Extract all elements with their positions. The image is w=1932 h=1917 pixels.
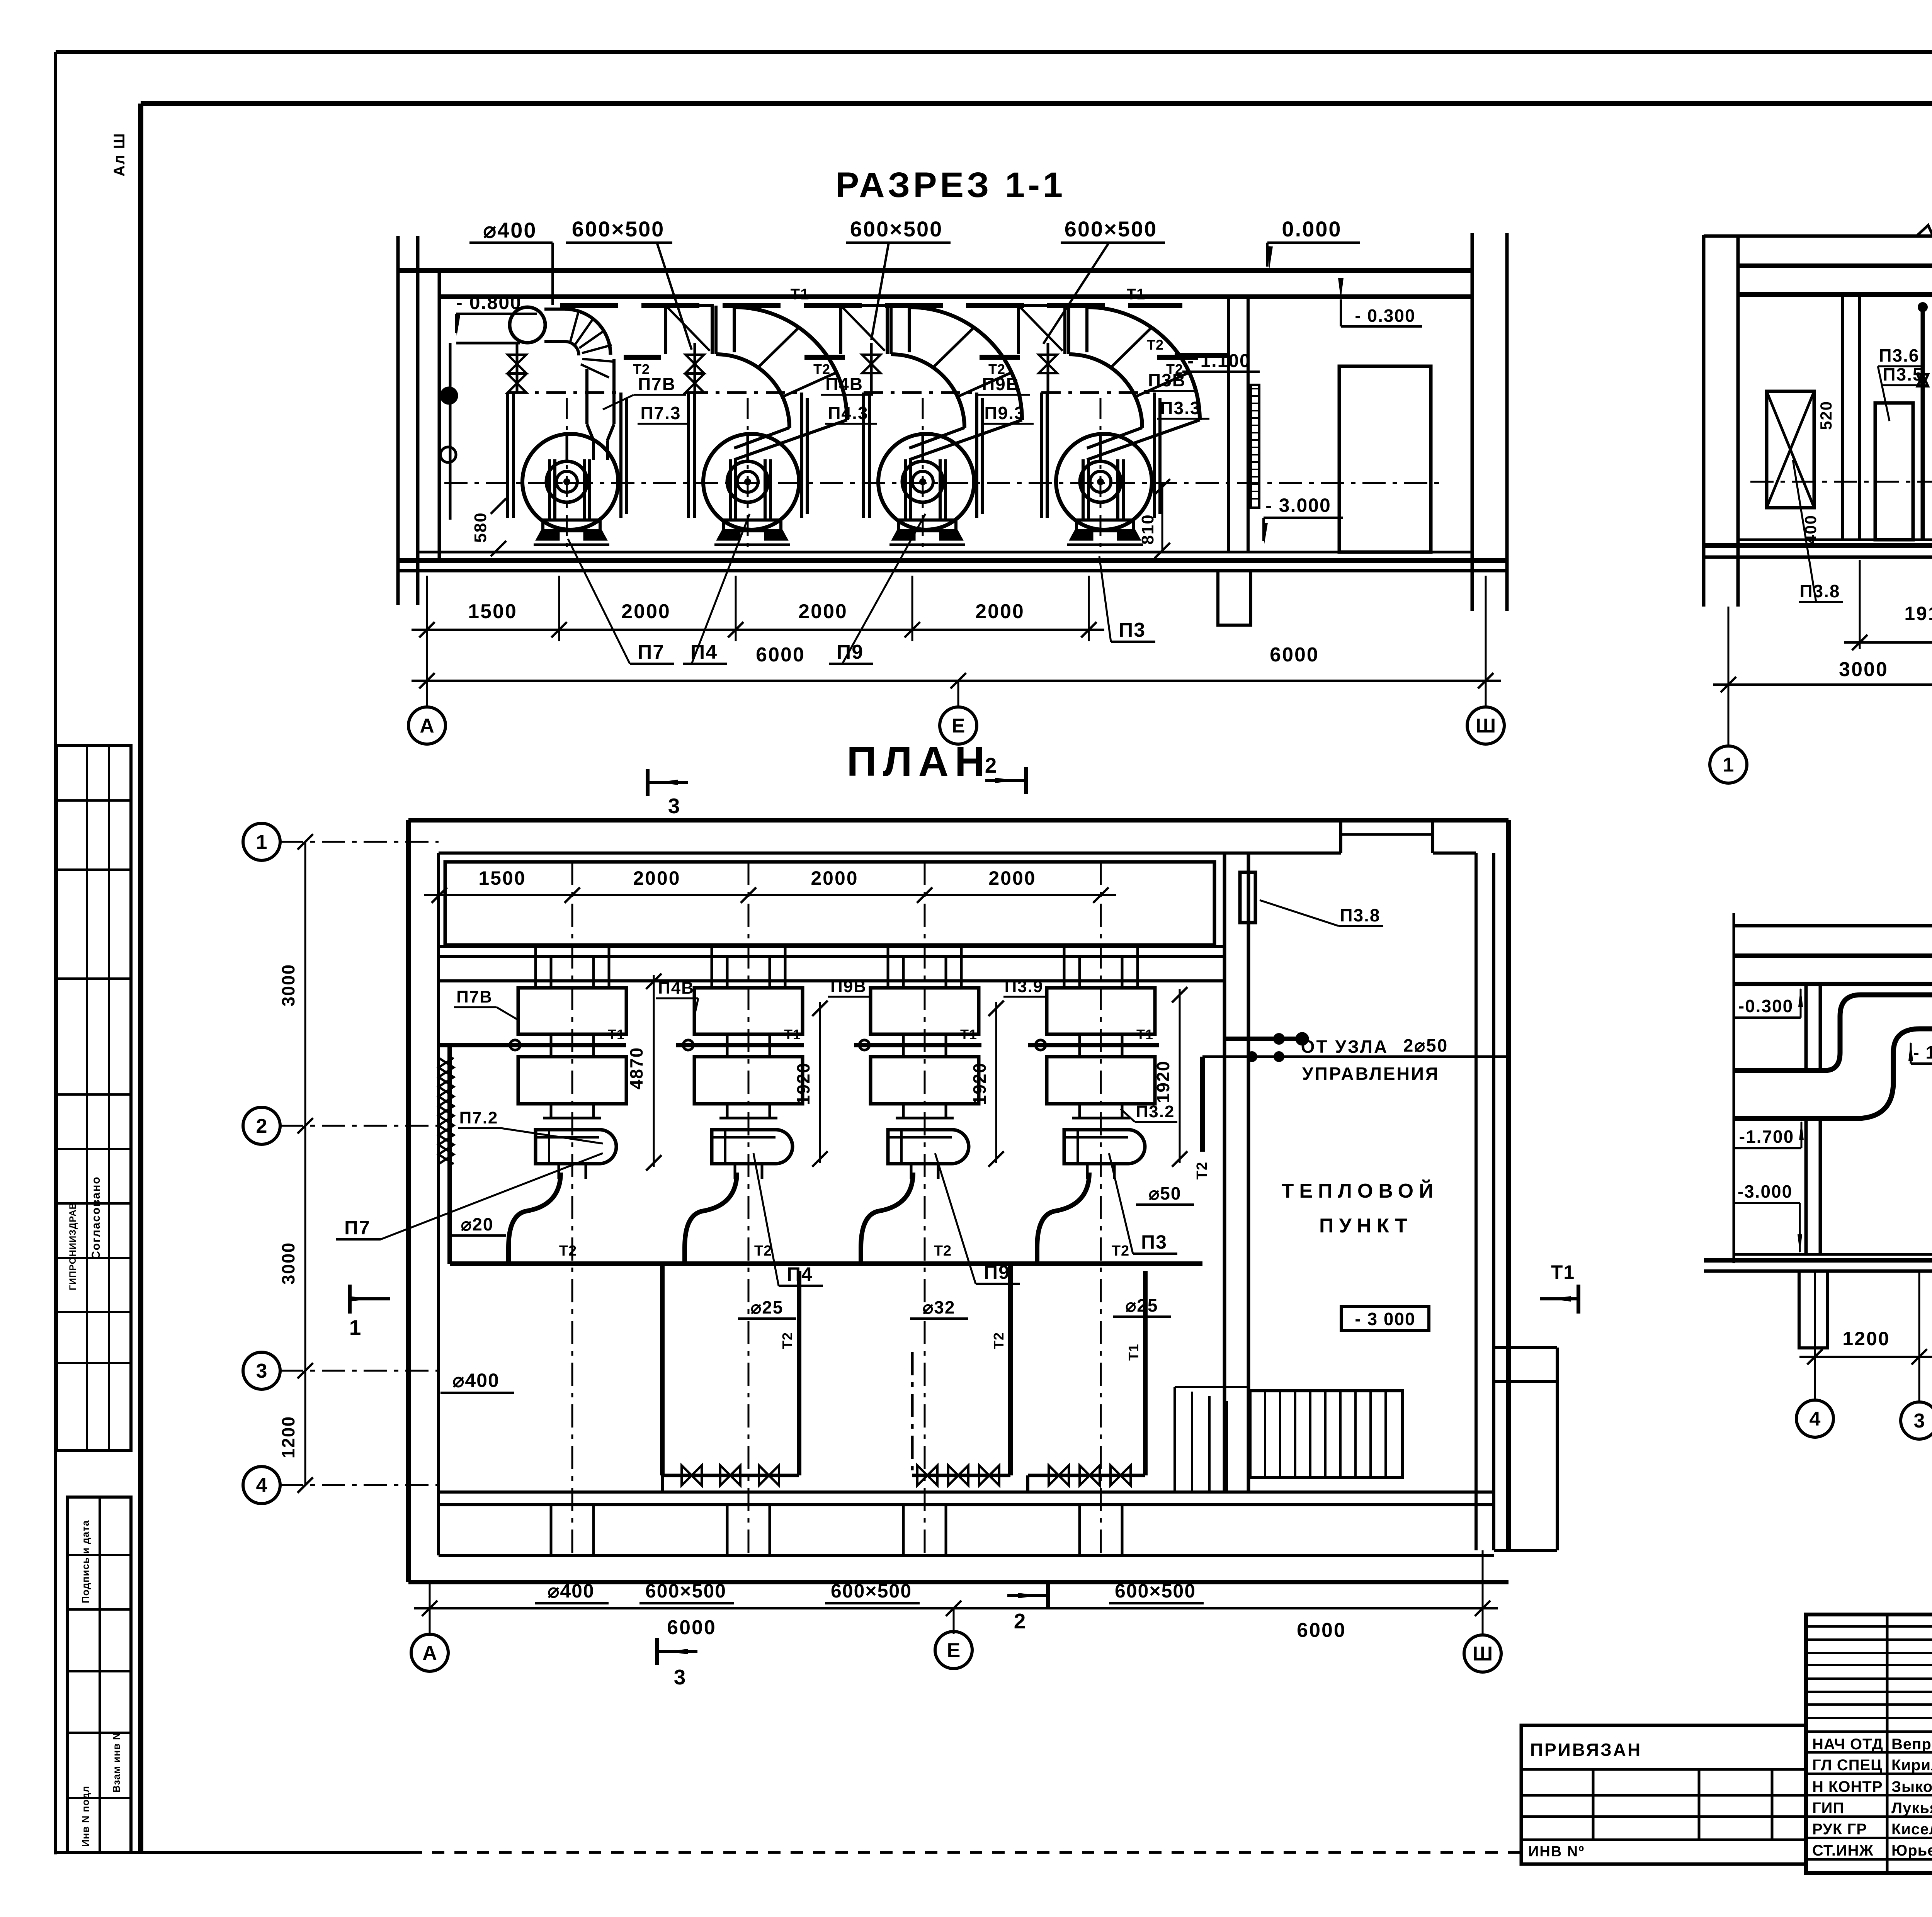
fan unit at x=2400 <box>862 393 865 518</box>
svg-text:-3.000: -3.000 <box>1738 1181 1793 1202</box>
svg-text:Взам инв N: Взам инв N <box>111 1732 122 1793</box>
svg-text:1500: 1500 <box>478 867 526 889</box>
svg-text:Киселева: Киселева <box>1891 1821 1932 1838</box>
radiator heat point <box>1250 1391 1403 1478</box>
svg-text:П7: П7 <box>344 1217 371 1239</box>
plan left grid circles <box>243 823 280 860</box>
svg-text:П9: П9 <box>837 641 864 663</box>
svg-text:⌀32: ⌀32 <box>923 1297 956 1317</box>
svg-text:3000: 3000 <box>278 1242 298 1285</box>
svg-text:ИНВ Nº: ИНВ Nº <box>1528 1844 1585 1860</box>
section 3-3 left wall <box>1804 984 1808 1071</box>
svg-text:ГЛ СПЕЦ: ГЛ СПЕЦ <box>1812 1757 1882 1774</box>
svg-text:Т1: Т1 <box>791 286 810 303</box>
svg-text:1918: 1918 <box>1904 603 1932 624</box>
section 3-3 left dim column <box>1733 913 1735 1263</box>
section 3-3 duct outer boundary <box>1734 995 1932 1091</box>
svg-text:Подпись и дата: Подпись и дата <box>80 1520 91 1603</box>
svg-text:П7.2: П7.2 <box>459 1108 498 1127</box>
section cut mark 2 bottom <box>1046 1582 1050 1609</box>
svg-text:П7.3: П7.3 <box>640 403 681 423</box>
svg-text:Т1: Т1 <box>1127 286 1146 303</box>
filter box 1 <box>1875 403 1913 540</box>
plan top door opening <box>1339 820 1342 853</box>
drop duct fan1 <box>585 369 588 424</box>
grid circles А Е Ш section 1-1 <box>426 641 428 707</box>
svg-text:1920: 1920 <box>969 1062 990 1105</box>
svg-text:3000: 3000 <box>278 964 298 1006</box>
section 2-2 ceiling <box>1738 263 1932 268</box>
svg-text:Ал Ш: Ал Ш <box>111 133 128 177</box>
svg-text:1200: 1200 <box>278 1416 298 1458</box>
plan fan outlet duct curves <box>509 1173 561 1264</box>
svg-text:Т2: Т2 <box>934 1243 952 1259</box>
section cut mark 2 top <box>1024 767 1028 794</box>
svg-text:П4: П4 <box>690 641 718 663</box>
pedestal below floor <box>1218 571 1251 625</box>
section 1-1 ceiling slab <box>398 268 1472 273</box>
svg-text:Е: Е <box>952 715 965 737</box>
round duct d400 fan1 <box>510 307 545 343</box>
grid circles 1 2 3 4 section 2-2 <box>1728 607 1730 746</box>
svg-text:ТЕПЛОВОЙ: ТЕПЛОВОЙ <box>1282 1179 1439 1202</box>
fan unit at x=2860 <box>1040 393 1043 518</box>
svg-text:РАЗРЕЗ 1-1: РАЗРЕЗ 1-1 <box>835 165 1066 205</box>
svg-text:1: 1 <box>349 1315 362 1339</box>
segmented elbow fan1 <box>565 309 611 355</box>
svg-text:⌀25: ⌀25 <box>1126 1295 1158 1315</box>
svg-text:П3.5: П3.5 <box>1883 364 1923 384</box>
svg-text:П3.6: П3.6 <box>1879 345 1919 365</box>
svg-text:П4В: П4В <box>658 979 694 998</box>
section cut mark 3 bottom <box>655 1638 659 1665</box>
plan bottom duct crossings <box>550 1505 553 1555</box>
svg-text:ГИПРОНИИЗДРАВ: ГИПРОНИИЗДРАВ <box>68 1202 78 1290</box>
plan fan unit 3 <box>887 947 889 988</box>
svg-text:2: 2 <box>985 753 998 777</box>
grid circles 4 3 2 1 section 3-3 <box>1814 1271 1816 1400</box>
svg-text:4870: 4870 <box>626 1047 646 1089</box>
svg-text:2000: 2000 <box>811 867 858 889</box>
level -3000 box <box>1341 1307 1429 1331</box>
svg-text:П9.3: П9.3 <box>984 403 1025 423</box>
partition heat point wall <box>1223 853 1226 1492</box>
svg-text:600×500: 600×500 <box>1065 217 1158 241</box>
svg-text:600×500: 600×500 <box>1115 1580 1196 1602</box>
svg-text:Т2: Т2 <box>779 1332 795 1349</box>
pipes risers 2-2 <box>1921 306 1925 540</box>
svg-text:ГИП: ГИП <box>1812 1800 1844 1817</box>
air intake plenum <box>445 862 1214 945</box>
svg-text:3000: 3000 <box>1839 658 1888 681</box>
plan fan unit 2 <box>711 947 713 988</box>
sheet outer border <box>56 50 1932 54</box>
section 1-1 partition wall <box>1227 297 1230 552</box>
section 1-1 lower dimension line <box>412 680 1501 682</box>
svg-text:⌀25: ⌀25 <box>751 1297 784 1317</box>
svg-text:2000: 2000 <box>798 600 848 623</box>
svg-text:- 0.300: - 0.300 <box>1355 306 1415 326</box>
wall hatch zigzag left <box>439 1058 454 1164</box>
section 2-2 dimension line <box>1713 683 1932 686</box>
svg-text:1920: 1920 <box>1153 1060 1173 1103</box>
svg-text:НАЧ ОТД: НАЧ ОТД <box>1812 1736 1883 1753</box>
section cut mark 3 top <box>646 769 650 796</box>
heat pipe T1 dashed <box>560 303 1182 308</box>
section 2-2 left column <box>1702 235 1706 607</box>
svg-text:3: 3 <box>674 1665 687 1689</box>
svg-text:Т1: Т1 <box>1551 1261 1575 1283</box>
svg-text:580: 580 <box>471 512 490 542</box>
svg-text:2000: 2000 <box>975 600 1025 623</box>
heater box with X <box>1767 391 1814 508</box>
plenum dimension line <box>424 894 1116 896</box>
svg-text:Т2: Т2 <box>754 1243 772 1259</box>
svg-text:⌀20: ⌀20 <box>461 1214 494 1234</box>
svg-text:Т1: Т1 <box>1126 1344 1141 1361</box>
risers to manifold <box>660 1264 665 1475</box>
svg-text:П3.3: П3.3 <box>1160 398 1201 418</box>
svg-text:600×500: 600×500 <box>645 1580 726 1602</box>
svg-text:4: 4 <box>256 1474 267 1497</box>
plan right outer pilaster <box>1556 1348 1559 1550</box>
svg-text:- 3 000: - 3 000 <box>1355 1309 1415 1329</box>
title block signature table <box>1806 1614 1932 1873</box>
svg-text:Т2: Т2 <box>1112 1243 1129 1259</box>
svg-text:3: 3 <box>1914 1410 1925 1432</box>
plan fan unit 1 <box>534 947 537 988</box>
plan bottom wall second lines <box>439 1490 1494 1494</box>
svg-text:Т1: Т1 <box>960 1026 977 1042</box>
svg-text:- 0.800: - 0.800 <box>456 292 522 313</box>
T2 stub fan1 <box>624 355 661 360</box>
section 2-2 top line <box>1704 235 1932 238</box>
svg-text:П9В: П9В <box>830 977 867 996</box>
plan inner wall lines <box>439 851 1341 855</box>
svg-text:П3.2: П3.2 <box>1136 1102 1175 1121</box>
svg-text:600×500: 600×500 <box>850 217 943 241</box>
valves on riser fan1 <box>516 343 519 393</box>
section 2-2 floor <box>1738 539 1932 541</box>
svg-text:Ш: Ш <box>1473 1643 1493 1665</box>
svg-text:Инв N подл: Инв N подл <box>80 1786 91 1847</box>
section 1-1 right column <box>1471 233 1474 611</box>
plan outer walls <box>408 818 1509 823</box>
svg-text:Т2: Т2 <box>559 1243 577 1259</box>
elbow duct fan at 1947 <box>734 307 847 420</box>
svg-text:2: 2 <box>256 1115 267 1137</box>
svg-text:4: 4 <box>1810 1408 1821 1430</box>
left margin upper table <box>56 746 131 1451</box>
svg-text:2000: 2000 <box>988 867 1036 889</box>
svg-text:6000: 6000 <box>1297 1619 1346 1642</box>
svg-text:П7В: П7В <box>638 374 676 394</box>
svg-text:Зыкова: Зыкова <box>1891 1778 1932 1795</box>
svg-text:Вепринский: Вепринский <box>1891 1736 1932 1753</box>
section 3-3 top line <box>1734 924 1932 928</box>
svg-text:⌀400: ⌀400 <box>452 1370 500 1391</box>
elbow duct fan at 2860 <box>1087 307 1200 420</box>
left margin lower table <box>67 1497 131 1852</box>
svg-text:600×500: 600×500 <box>831 1580 912 1602</box>
svg-text:СТ.ИНЖ: СТ.ИНЖ <box>1812 1842 1874 1859</box>
section 1-1 floor <box>418 551 1472 554</box>
left attachment table <box>1521 1725 1806 1864</box>
T2 stub near fan 1947 <box>804 355 845 360</box>
intake funnel fan at 2400 <box>841 306 887 354</box>
svg-text:П3.9: П3.9 <box>1005 977 1044 996</box>
svg-text:-0.300: -0.300 <box>1738 996 1793 1016</box>
level -0.300 right <box>1341 325 1422 328</box>
svg-text:520: 520 <box>1817 401 1835 430</box>
svg-text:3: 3 <box>668 794 681 818</box>
elbow duct fan at 2400 <box>909 307 1022 420</box>
plan left dimension column <box>304 842 306 1485</box>
svg-text:ПУНКТ: ПУНКТ <box>1319 1215 1413 1237</box>
svg-text:2: 2 <box>1014 1609 1027 1633</box>
section 3-3 ceiling <box>1734 953 1932 958</box>
svg-text:6000: 6000 <box>1270 644 1319 666</box>
svg-text:Е: Е <box>947 1639 961 1662</box>
intake funnel fan at 2860 <box>1019 306 1065 354</box>
svg-text:1200: 1200 <box>1842 1328 1890 1349</box>
plan bottom grid circles <box>429 1582 431 1634</box>
T1 dash vertical drops <box>661 1475 664 1492</box>
stair steps <box>1173 1387 1176 1491</box>
section 3-3 floor <box>1734 1253 1932 1256</box>
section cut mark 1-1 right <box>1577 1285 1580 1314</box>
svg-text:П7В: П7В <box>456 987 493 1006</box>
svg-text:РУК ГР: РУК ГР <box>1812 1821 1867 1838</box>
svg-text:810: 810 <box>1138 514 1157 544</box>
svg-text:0.000: 0.000 <box>1282 217 1342 241</box>
svg-text:П3: П3 <box>1119 619 1146 641</box>
svg-text:- 1.000: - 1.000 <box>1913 1042 1932 1062</box>
section 3-3 dimension line <box>1799 1356 1932 1358</box>
svg-text:3: 3 <box>256 1360 267 1382</box>
plan bottom dimension line <box>414 1607 1498 1609</box>
section cut mark 1-1 left <box>348 1285 352 1314</box>
svg-text:-1.700: -1.700 <box>1739 1127 1794 1147</box>
svg-text:П4В: П4В <box>825 374 863 394</box>
svg-text:600×500: 600×500 <box>572 217 665 241</box>
fan unit at x=1479 <box>506 393 509 518</box>
wall below plenum <box>439 945 1225 948</box>
svg-text:Т1: Т1 <box>608 1026 625 1042</box>
valve riser fan2 <box>694 343 696 393</box>
svg-text:ПРИВЯЗАН: ПРИВЯЗАН <box>1530 1740 1642 1760</box>
svg-text:П3В: П3В <box>1148 370 1186 390</box>
plan T1 pipe line <box>439 1043 626 1047</box>
svg-text:⌀400: ⌀400 <box>483 218 537 242</box>
svg-text:Кириллова: Кириллова <box>1891 1757 1932 1774</box>
svg-text:⌀50: ⌀50 <box>1149 1183 1182 1203</box>
inner drawing frame <box>141 101 1932 106</box>
door opening <box>1339 366 1431 552</box>
T2 stub near fan 2860 <box>1157 355 1198 360</box>
svg-text:П3.8: П3.8 <box>1799 581 1840 601</box>
fan unit at x=1947 <box>687 393 690 518</box>
svg-text:Согласовано: Согласовано <box>90 1176 102 1259</box>
svg-text:ПЛАН: ПЛАН <box>847 738 991 785</box>
svg-text:А: А <box>422 1642 437 1664</box>
svg-text:П7: П7 <box>638 641 665 663</box>
svg-text:6000: 6000 <box>756 644 805 666</box>
svg-text:П3: П3 <box>1141 1231 1167 1253</box>
svg-text:П9В: П9В <box>982 374 1020 394</box>
svg-text:1: 1 <box>256 831 267 853</box>
grille П3.8 plan <box>1240 872 1255 923</box>
intake funnel fan at 1947 <box>666 306 712 354</box>
pipe riser left wall <box>456 342 520 345</box>
section 3-3 duct inner boundary <box>1734 1029 1932 1118</box>
section 1-1 fan axis dash-dot <box>444 482 1445 484</box>
svg-text:П4.3: П4.3 <box>828 403 868 423</box>
svg-text:ОТ УЗЛА: ОТ УЗЛА <box>1301 1037 1388 1057</box>
svg-text:Т2: Т2 <box>991 1332 1007 1349</box>
svg-text:1920: 1920 <box>793 1062 813 1105</box>
svg-text:Т1: Т1 <box>1136 1026 1153 1042</box>
plan fan unit 4 <box>1063 947 1066 988</box>
section 1-1 left column A <box>396 236 400 605</box>
svg-text:1500: 1500 <box>468 600 517 623</box>
svg-text:Т1: Т1 <box>784 1026 801 1042</box>
svg-text:Т2: Т2 <box>1147 337 1164 353</box>
svg-text:Н КОНТР: Н КОНТР <box>1812 1778 1883 1795</box>
T2 stub near fan 2400 <box>980 355 1020 360</box>
svg-text:⌀400: ⌀400 <box>548 1580 595 1602</box>
partition wall 2-2 <box>1841 294 1844 540</box>
svg-text:2000: 2000 <box>621 600 671 623</box>
svg-text:- 3.000: - 3.000 <box>1265 495 1331 516</box>
svg-text:Т2: Т2 <box>1194 1162 1210 1179</box>
svg-text:А: А <box>420 715 434 737</box>
svg-text:П3.8: П3.8 <box>1340 905 1380 925</box>
valve riser fan4 <box>1047 343 1049 393</box>
svg-text:6000: 6000 <box>667 1616 716 1639</box>
svg-text:Ш: Ш <box>1476 715 1496 737</box>
pipe from control unit <box>1225 1037 1305 1041</box>
svg-text:2000: 2000 <box>633 867 680 889</box>
valve manifold bottom <box>662 1474 799 1477</box>
section 2-2 axis dash-dot <box>1750 481 1932 483</box>
svg-text:УПРАВЛЕНИЯ: УПРАВЛЕНИЯ <box>1302 1064 1440 1084</box>
hatched strip on partition <box>1251 385 1259 508</box>
svg-text:Лукьянова: Лукьянова <box>1891 1800 1932 1817</box>
valve riser fan3 <box>870 343 873 393</box>
plan T2 main line <box>447 1045 452 1264</box>
svg-text:Юрьев: Юрьев <box>1891 1842 1932 1859</box>
svg-text:1: 1 <box>1723 754 1734 776</box>
pedestal 3-3 <box>1799 1271 1827 1348</box>
svg-text:2⌀50: 2⌀50 <box>1403 1035 1448 1055</box>
section 1-1 dimension row <box>426 576 428 641</box>
